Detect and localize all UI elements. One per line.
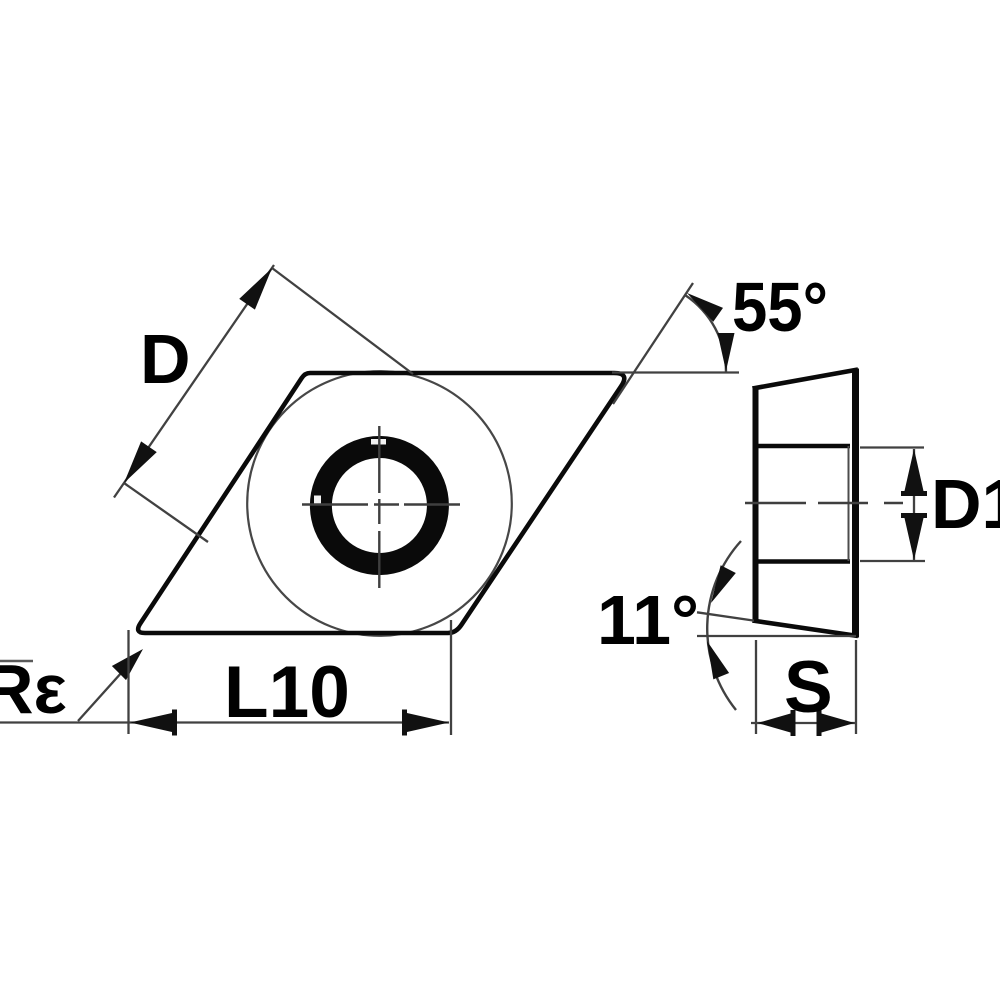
centerline vertical (front view) xyxy=(378,426,380,588)
Re leader arrow xyxy=(112,642,150,680)
side view left edge xyxy=(753,386,759,623)
side view hole silhouette vertical xyxy=(848,446,850,561)
S arrow left xyxy=(758,710,796,736)
front view insert outline (rounded rhombus) xyxy=(138,373,624,633)
dimension D line xyxy=(114,265,274,498)
svg-text:L10: L10 xyxy=(224,652,350,733)
svg-text:S: S xyxy=(784,647,833,728)
D extension line upper xyxy=(272,268,413,374)
S right extension line xyxy=(855,640,857,734)
svg-text:55°: 55° xyxy=(732,268,828,346)
11deg arc arrow lower xyxy=(699,638,729,680)
D1 arrow down xyxy=(901,513,927,560)
S arrow right xyxy=(817,710,855,736)
D1 dimension line xyxy=(913,449,915,560)
D1 arrow up xyxy=(901,449,927,496)
D arrow lower xyxy=(116,441,157,488)
svg-text:11°: 11° xyxy=(597,581,699,659)
S dimension line xyxy=(751,722,856,724)
11deg arc xyxy=(707,541,741,710)
55deg arc arrow upper xyxy=(682,286,723,322)
hole (thick ring) xyxy=(321,447,438,564)
S left extension line xyxy=(755,640,757,734)
side view top edge xyxy=(753,370,859,389)
white notch left of ring xyxy=(314,496,321,506)
side view right edge xyxy=(852,369,859,638)
L10 arrow left xyxy=(130,710,177,736)
L10 left extension line xyxy=(127,630,129,734)
L10 arrow right xyxy=(402,710,449,736)
L10 dimension line xyxy=(0,721,449,723)
centerline horizontal (front view) xyxy=(302,503,460,505)
55deg arc arrow lower xyxy=(718,333,735,371)
D extension line lower xyxy=(124,483,208,542)
svg-text:D: D xyxy=(140,320,191,398)
D1 extension line top xyxy=(860,446,924,448)
side view bottom edge xyxy=(753,621,859,637)
55deg horizontal extension line xyxy=(612,371,739,373)
side view hole top line xyxy=(753,444,850,449)
55deg edge extension line xyxy=(613,283,693,404)
side view centerline xyxy=(745,502,903,504)
11deg slanted extension line xyxy=(697,612,754,620)
inscribed circle (thin) xyxy=(247,371,512,636)
55deg arc xyxy=(685,295,726,372)
svg-text:D1: D1 xyxy=(931,465,1000,543)
D arrow upper xyxy=(239,263,280,310)
small tick above R xyxy=(0,660,33,663)
svg-text:Rε: Rε xyxy=(0,650,67,728)
11deg arc arrow upper xyxy=(703,565,735,607)
L10 right extension line xyxy=(450,620,452,735)
white notch top of ring xyxy=(371,439,386,445)
side view hole bottom line xyxy=(753,559,850,564)
11deg horizontal extension line xyxy=(697,635,856,637)
Re leader line xyxy=(78,652,140,721)
D1 extension line bottom xyxy=(860,560,925,562)
